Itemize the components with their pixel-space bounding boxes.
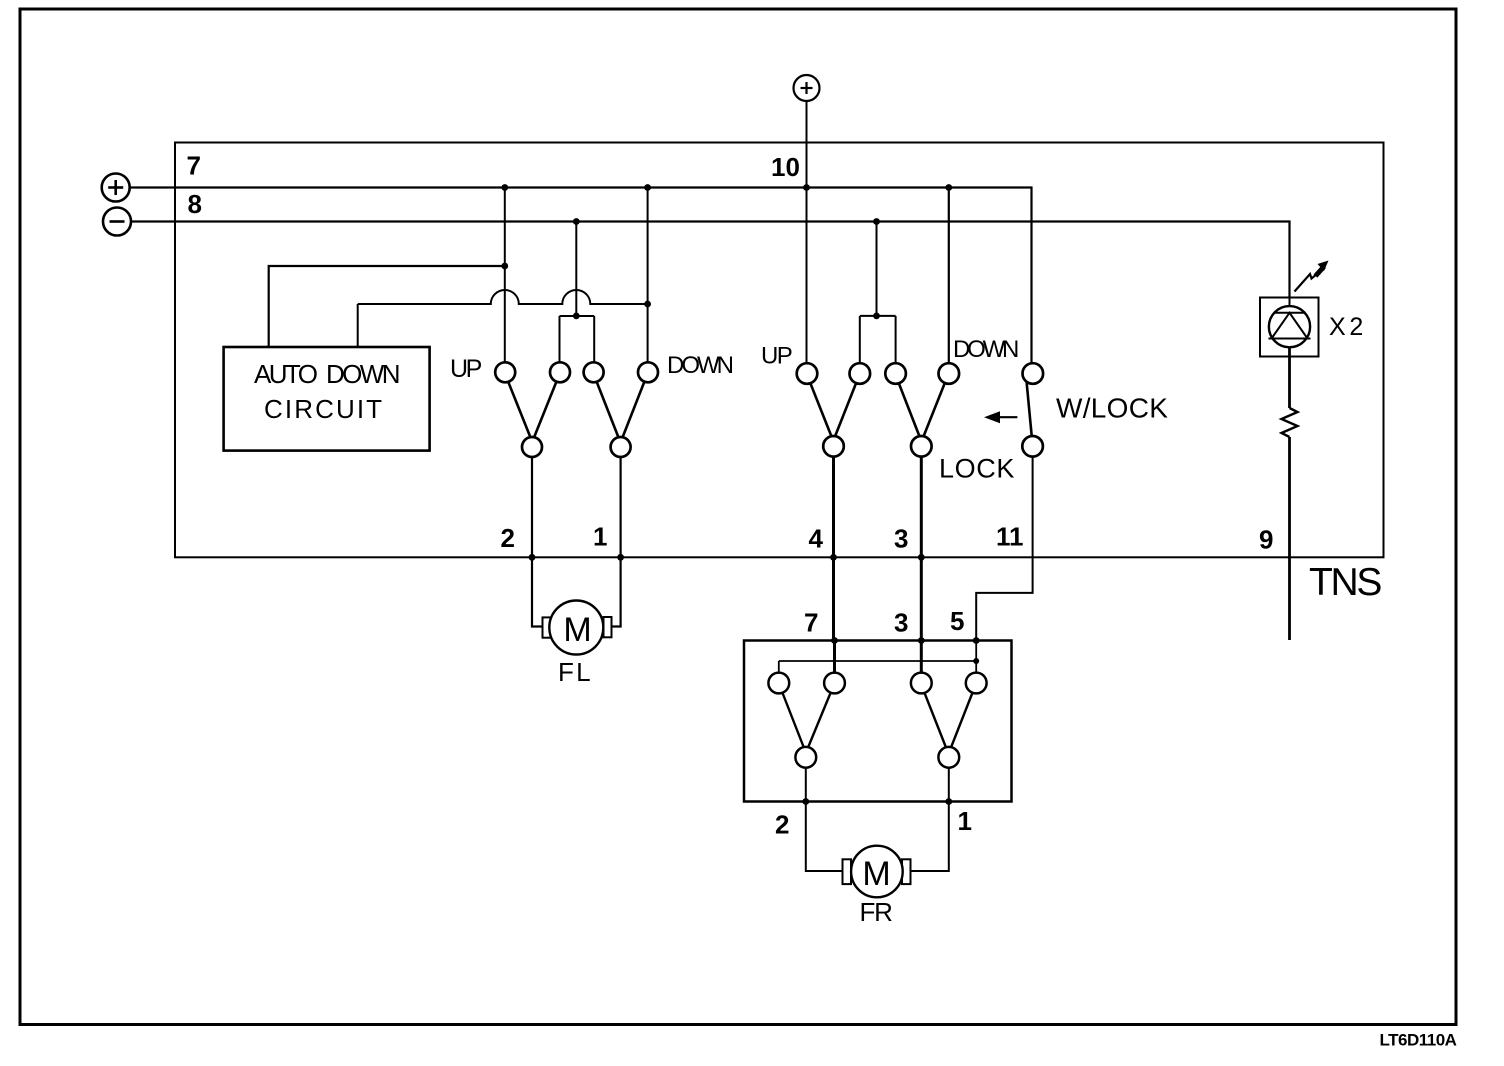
svg-text:LT6D110A: LT6D110A: [1380, 1031, 1457, 1050]
svg-text:7: 7: [187, 151, 201, 181]
svg-text:7: 7: [804, 607, 818, 637]
svg-text:10: 10: [771, 152, 800, 182]
svg-text:11: 11: [996, 521, 1024, 551]
svg-text:3: 3: [894, 607, 908, 637]
svg-text:5: 5: [950, 606, 964, 636]
svg-text:FL: FL: [558, 657, 593, 687]
svg-text:X2: X2: [1329, 313, 1367, 341]
svg-text:2: 2: [501, 523, 515, 553]
svg-text:TNS: TNS: [1309, 561, 1381, 604]
svg-text:9: 9: [1259, 525, 1273, 555]
svg-text:M: M: [862, 855, 890, 893]
svg-text:LOCK: LOCK: [939, 454, 1015, 484]
svg-text:1: 1: [593, 522, 607, 552]
svg-text:FR: FR: [860, 897, 893, 927]
svg-text:DOWN: DOWN: [667, 352, 733, 379]
svg-text:M: M: [563, 611, 591, 649]
svg-text:DOWN: DOWN: [953, 336, 1018, 363]
svg-text:3: 3: [894, 524, 908, 554]
svg-text:AUTO DOWN: AUTO DOWN: [254, 359, 399, 389]
svg-text:2: 2: [775, 810, 789, 840]
svg-text:UP: UP: [450, 355, 482, 383]
svg-text:CIRCUIT: CIRCUIT: [264, 394, 384, 424]
svg-text:W/LOCK: W/LOCK: [1056, 393, 1168, 424]
svg-text:8: 8: [188, 189, 202, 219]
svg-text:4: 4: [809, 524, 824, 554]
svg-text:1: 1: [958, 806, 972, 836]
svg-text:UP: UP: [761, 343, 792, 370]
